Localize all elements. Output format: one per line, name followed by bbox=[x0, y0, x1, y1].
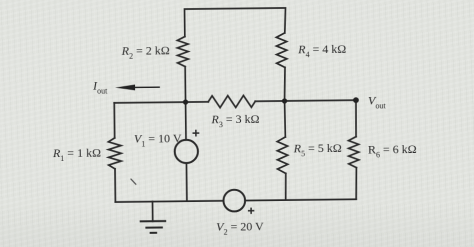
wire bottom rail right bbox=[245, 199, 356, 200]
resistor R4 bbox=[276, 33, 287, 68]
svg-text:R4 = 4 kΩ: R4 = 4 kΩ bbox=[297, 42, 346, 60]
node Vout terminal dot bbox=[353, 97, 359, 103]
svg-text:V1 = 10 V: V1 = 10 V bbox=[134, 131, 182, 149]
wire R4 bottom to node B bbox=[284, 67, 285, 101]
node B junction dot bbox=[282, 98, 287, 103]
wire middle rail right bbox=[255, 100, 356, 101]
ground bbox=[151, 202, 153, 222]
svg-text:R3 = 3 kΩ: R3 = 3 kΩ bbox=[210, 112, 259, 130]
Iout current arrow bbox=[115, 85, 135, 91]
V1 plus sign bbox=[192, 130, 199, 137]
svg-text:Vout: Vout bbox=[368, 93, 387, 110]
voltage source V1 bbox=[185, 102, 187, 140]
resistor R2 bbox=[177, 37, 188, 67]
resistor R6 bbox=[355, 100, 358, 137]
resistor R3 bbox=[208, 95, 255, 108]
stray mark bbox=[131, 179, 137, 185]
V2 plus sign bbox=[248, 208, 254, 214]
wire bottom rail left bbox=[115, 201, 223, 202]
wire top rail bbox=[185, 8, 286, 37]
svg-text:R5 = 5 kΩ: R5 = 5 kΩ bbox=[293, 141, 342, 159]
svg-text:R1 = 1 kΩ: R1 = 1 kΩ bbox=[52, 146, 101, 164]
wire middle rail left bbox=[114, 102, 208, 103]
resistor R5 bbox=[284, 101, 287, 137]
svg-text:R2 = 2 kΩ: R2 = 2 kΩ bbox=[121, 43, 170, 61]
svg-text:V2 = 20 V: V2 = 20 V bbox=[216, 219, 264, 237]
voltage source V2 bbox=[223, 190, 245, 212]
svg-text:Iout: Iout bbox=[92, 78, 108, 95]
resistor R1 bbox=[113, 103, 115, 138]
wire R2 bottom to node A bbox=[184, 67, 186, 102]
node A junction dot bbox=[183, 99, 188, 104]
svg-text:R6 = 6 kΩ: R6 = 6 kΩ bbox=[368, 142, 417, 160]
